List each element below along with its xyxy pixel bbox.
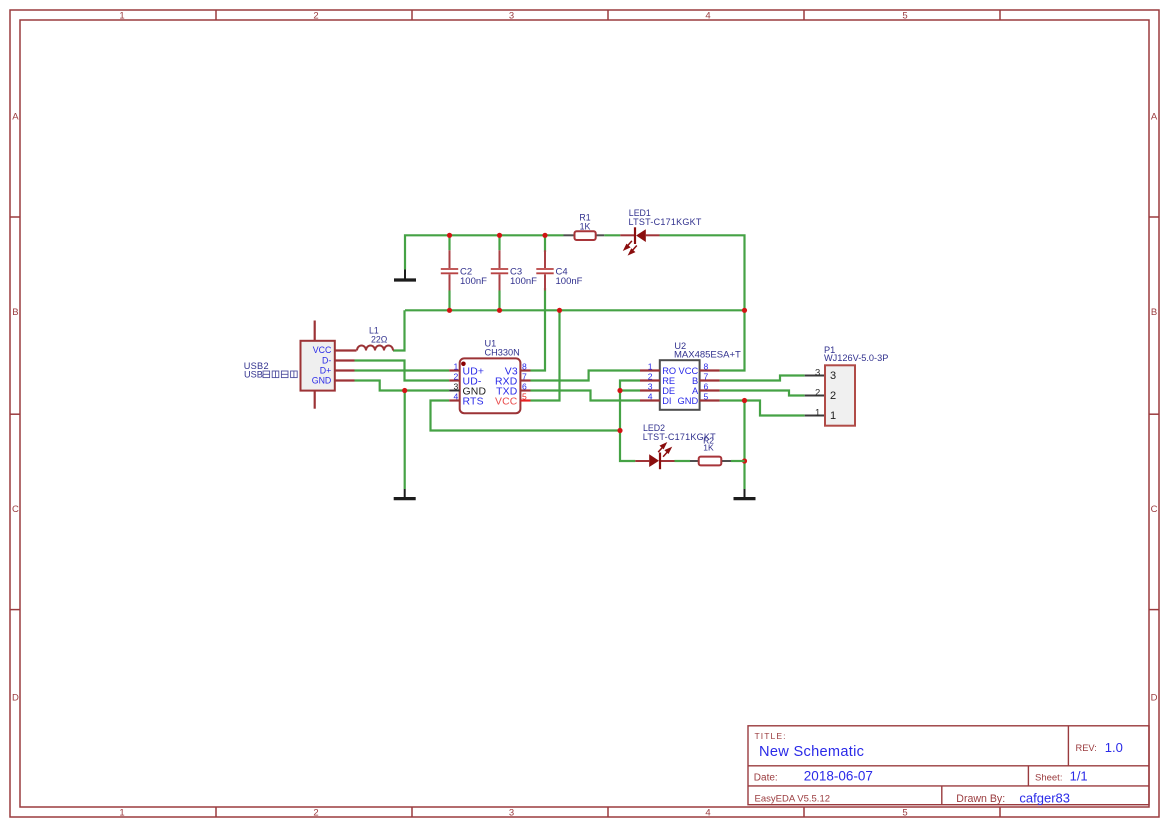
svg-text:1: 1 bbox=[454, 361, 459, 371]
svg-text:B: B bbox=[1151, 307, 1157, 318]
svg-text:7: 7 bbox=[704, 371, 709, 381]
wire USB D- to U1 UD- bbox=[355, 361, 450, 381]
svg-text:100nF: 100nF bbox=[460, 276, 487, 287]
svg-text:EasyEDA V5.5.12: EasyEDA V5.5.12 bbox=[755, 794, 831, 805]
junction C2 top bbox=[447, 233, 452, 238]
svg-text:VCC: VCC bbox=[495, 397, 518, 408]
IC U2 MAX485ESA+T bbox=[640, 341, 741, 410]
svg-text:1K: 1K bbox=[580, 222, 591, 232]
ground bottom left bbox=[394, 489, 416, 499]
ground top left bbox=[394, 270, 416, 281]
svg-text:3: 3 bbox=[509, 11, 514, 22]
LED1 bbox=[620, 208, 702, 254]
svg-text:REV:: REV: bbox=[1076, 743, 1097, 753]
svg-text:TITLE:: TITLE: bbox=[755, 731, 787, 741]
svg-text:8: 8 bbox=[522, 361, 527, 371]
svg-text:1K: 1K bbox=[703, 443, 714, 453]
wire USB D+ to U1 UD+ bbox=[355, 369, 450, 371]
svg-text:CH330N: CH330N bbox=[485, 348, 520, 358]
svg-text:2: 2 bbox=[313, 11, 318, 22]
svg-text:5: 5 bbox=[522, 391, 527, 401]
svg-text:8: 8 bbox=[704, 361, 709, 371]
svg-text:D: D bbox=[12, 693, 19, 704]
svg-text:2: 2 bbox=[648, 371, 653, 381]
svg-text:D: D bbox=[1151, 693, 1158, 704]
svg-text:3: 3 bbox=[648, 381, 653, 391]
svg-text:2: 2 bbox=[830, 390, 836, 402]
wire U1 TXD to U2 DI bbox=[531, 391, 641, 401]
svg-text:7: 7 bbox=[522, 371, 527, 381]
svg-text:6: 6 bbox=[522, 381, 527, 391]
svg-text:1: 1 bbox=[119, 11, 124, 22]
svg-text:D-: D- bbox=[322, 355, 331, 365]
svg-text:VCC: VCC bbox=[679, 366, 699, 376]
svg-text:2: 2 bbox=[313, 808, 318, 819]
junction C3 top bbox=[497, 233, 502, 238]
svg-text:VCC: VCC bbox=[313, 345, 332, 355]
junction C2 bottom bbox=[447, 308, 452, 313]
svg-text:B: B bbox=[12, 307, 18, 318]
capacitor C3 bbox=[491, 250, 537, 290]
junction DE bbox=[617, 388, 622, 393]
svg-text:C: C bbox=[1151, 504, 1158, 515]
svg-text:1/1: 1/1 bbox=[1070, 769, 1088, 784]
svg-text:5: 5 bbox=[902, 11, 907, 22]
svg-text:100nF: 100nF bbox=[556, 276, 583, 287]
svg-text:1: 1 bbox=[119, 808, 124, 819]
wire U2 A to P1 pin2 bbox=[720, 391, 805, 396]
svg-text:C: C bbox=[12, 504, 19, 515]
svg-text:1: 1 bbox=[830, 410, 836, 422]
ground bottom right bbox=[734, 489, 756, 499]
resistor R1 bbox=[564, 213, 605, 241]
svg-text:RE: RE bbox=[662, 376, 675, 386]
svg-text:3: 3 bbox=[830, 370, 836, 382]
svg-text:Date:: Date: bbox=[754, 772, 778, 783]
wire U2 DE stub link bbox=[620, 389, 640, 391]
junction RTS bbox=[617, 428, 622, 433]
svg-text:2: 2 bbox=[454, 371, 459, 381]
svg-text:cafger83: cafger83 bbox=[1019, 790, 1070, 805]
svg-text:GND: GND bbox=[678, 396, 699, 406]
svg-text:B: B bbox=[692, 376, 698, 386]
svg-text:4: 4 bbox=[454, 391, 459, 401]
svg-text:A: A bbox=[12, 112, 19, 123]
svg-text:USB: USB bbox=[244, 370, 263, 380]
svg-text:D+: D+ bbox=[320, 366, 332, 376]
wire U1 RXD to U2 RO bbox=[531, 371, 641, 381]
svg-text:1: 1 bbox=[815, 407, 820, 418]
wire C2 top lead bbox=[448, 235, 450, 250]
svg-text:3: 3 bbox=[815, 367, 820, 378]
svg-text:GND: GND bbox=[312, 376, 332, 386]
LED2 bbox=[635, 423, 716, 469]
connector USB2 bbox=[244, 321, 357, 409]
svg-text:22Ω: 22Ω bbox=[371, 335, 388, 345]
svg-text:100nF: 100nF bbox=[510, 276, 537, 287]
svg-text:New Schematic: New Schematic bbox=[759, 744, 864, 760]
wire GND top rail bbox=[405, 235, 564, 269]
wire C4 top lead bbox=[544, 235, 546, 252]
svg-text:1: 1 bbox=[648, 361, 653, 371]
wire GND net right vertical bbox=[743, 401, 745, 490]
capacitor C2 bbox=[441, 250, 487, 290]
svg-text:MAX485ESA+T: MAX485ESA+T bbox=[674, 349, 741, 360]
SCHEMATIC bbox=[244, 208, 889, 499]
wire U2 GND to P1 pin1 bbox=[720, 401, 805, 416]
wire U2 B to P1 pin3 bbox=[720, 376, 805, 381]
junction R2 right bbox=[742, 458, 747, 463]
wire VCC rail to U1 pin5 bbox=[531, 310, 560, 400]
svg-text:6: 6 bbox=[704, 381, 709, 391]
svg-text:4: 4 bbox=[705, 11, 710, 22]
svg-text:1.0: 1.0 bbox=[1105, 740, 1123, 755]
wire USB GND to U1 GND bbox=[355, 381, 450, 391]
svg-text:4: 4 bbox=[648, 391, 653, 401]
junction VCC drop bbox=[557, 308, 562, 313]
TITLEBLOCK bbox=[748, 726, 1149, 806]
resistor R2 bbox=[690, 435, 731, 465]
inductor L1 bbox=[357, 326, 393, 351]
wire C3 top lead bbox=[498, 235, 500, 250]
svg-text:RO: RO bbox=[662, 366, 676, 376]
svg-text:3: 3 bbox=[454, 381, 459, 391]
wire U2 RE to vertical net bbox=[620, 381, 640, 462]
wire L1 to VCC rail bbox=[393, 310, 405, 350]
wire VCC rail bbox=[405, 309, 745, 311]
connector P1 bbox=[805, 345, 889, 426]
svg-text:RTS: RTS bbox=[463, 397, 484, 408]
svg-text:Drawn By:: Drawn By: bbox=[956, 793, 1005, 805]
junction C4 top bbox=[542, 233, 547, 238]
svg-text:DE: DE bbox=[662, 386, 675, 396]
svg-text:4: 4 bbox=[705, 808, 710, 819]
svg-text:A: A bbox=[1151, 112, 1158, 123]
wire LED1 cathode to right vertical bbox=[660, 235, 745, 370]
junction VCC rail right bbox=[742, 308, 747, 313]
svg-text:Sheet:: Sheet: bbox=[1035, 773, 1062, 784]
wire U1 RTS to DE/RE net bbox=[431, 401, 621, 431]
svg-text:A: A bbox=[692, 386, 699, 396]
svg-text:5: 5 bbox=[704, 391, 709, 401]
wire C3 bottom lead bbox=[498, 291, 500, 311]
wire LED2 to R2 bbox=[675, 460, 691, 462]
wire R1 to LED1 bbox=[604, 234, 620, 236]
wire GND drop to lower ground bbox=[404, 391, 406, 490]
wire C4 bottom to U1 V3 bbox=[531, 288, 546, 371]
svg-text:WJ126V-5.0-3P: WJ126V-5.0-3P bbox=[824, 353, 888, 363]
junction U2 GND pin5 bbox=[742, 398, 747, 403]
junction GND usb bbox=[402, 388, 407, 393]
IC U1 CH330N bbox=[449, 339, 530, 414]
wire R2 to GND vertical bbox=[731, 460, 745, 462]
wire C2 bottom lead bbox=[448, 291, 450, 311]
svg-text:DI: DI bbox=[662, 396, 671, 406]
svg-text:3: 3 bbox=[509, 808, 514, 819]
svg-text:LTST-C171KGKT: LTST-C171KGKT bbox=[629, 217, 702, 227]
junction C3 bottom bbox=[497, 308, 502, 313]
capacitor C4 bbox=[536, 250, 582, 290]
svg-text:2018-06-07: 2018-06-07 bbox=[804, 769, 873, 784]
svg-text:5: 5 bbox=[902, 808, 907, 819]
svg-text:2: 2 bbox=[815, 387, 820, 398]
